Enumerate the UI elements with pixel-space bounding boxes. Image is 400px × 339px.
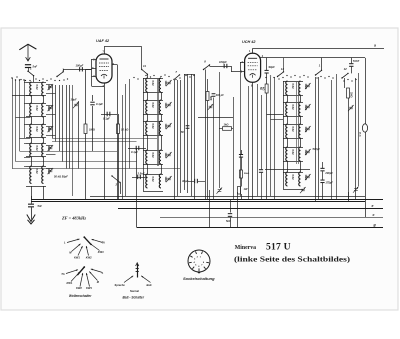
resistor 10k xyxy=(118,114,120,124)
svg-text:e: e xyxy=(372,204,374,208)
wire sw8 drop xyxy=(205,70,207,200)
trimmer right lower xyxy=(353,187,359,193)
wire bundle B3 xyxy=(180,80,182,193)
svg-text:0.02: 0.02 xyxy=(291,105,295,111)
svg-text:0.02: 0.02 xyxy=(35,106,39,112)
resistor 50k xyxy=(265,84,268,93)
wire row R1 top xyxy=(283,81,303,83)
svg-text:500pF: 500pF xyxy=(313,147,321,151)
wire mid cluster drop xyxy=(207,101,209,200)
wire bundle C1 xyxy=(184,74,186,190)
switch wave contact 1a xyxy=(27,71,34,77)
svg-text:(linke Seite des Schaltbildes): (linke Seite des Schaltbildes) xyxy=(234,255,351,264)
capacitor 0.1uF coupling xyxy=(101,114,117,116)
svg-text:KW2: KW2 xyxy=(76,286,82,290)
wire row R2 bottom xyxy=(283,116,303,118)
coil M5b xyxy=(159,174,161,188)
switch contact dots row mid xyxy=(133,74,194,80)
coil L5b xyxy=(42,166,44,184)
wire row L5 bottom xyxy=(26,186,46,188)
coil R4b xyxy=(299,147,301,161)
wire mid bank left spine xyxy=(143,78,145,191)
switch section 8 xyxy=(203,64,210,70)
wire row R3 bottom xyxy=(283,138,303,140)
wire left bus 3 xyxy=(19,80,21,151)
svg-text:TAST: TAST xyxy=(353,60,360,63)
wire drop 240 xyxy=(240,72,242,196)
wire antenna coupling rail xyxy=(63,69,92,71)
coil R2b xyxy=(299,102,301,116)
wire trimline xyxy=(78,101,80,169)
switch section 12b xyxy=(341,73,348,79)
switch section 7 xyxy=(173,74,180,80)
wire bank row connectors xyxy=(31,95,33,103)
capacitor 90pF xyxy=(266,58,268,70)
lamp right border xyxy=(362,124,367,132)
svg-text:0.1µF: 0.1µF xyxy=(96,102,103,106)
resistor 1M xyxy=(85,69,87,124)
wire bank-left stubs2 xyxy=(12,95,30,97)
coil L1b xyxy=(42,82,44,96)
svg-text:517 U: 517 U xyxy=(266,242,291,253)
svg-text:0.02: 0.02 xyxy=(151,81,155,87)
wire bundle E3 xyxy=(331,80,333,199)
wire bundle C4 xyxy=(194,74,196,199)
switch diagram 1 pivot xyxy=(83,236,85,238)
coil L3b xyxy=(42,124,44,138)
coil M1a xyxy=(146,78,148,92)
coil M4b xyxy=(159,150,161,164)
wire UAF42 left rail xyxy=(86,69,92,71)
svg-text:Wellenschalter: Wellenschalter xyxy=(69,294,92,298)
switch section 11 xyxy=(141,69,148,75)
trimmer mid xyxy=(208,104,214,110)
svg-text:KW3: KW3 xyxy=(98,250,104,254)
node dots left xyxy=(11,77,24,80)
coil M2a xyxy=(146,100,148,114)
wire cross h2 xyxy=(52,141,137,143)
wire link UCH to rc row2 xyxy=(267,114,283,116)
trimmer capacitor row L1 xyxy=(48,84,54,90)
coil L4b xyxy=(42,143,44,157)
fan1 arrow L xyxy=(67,239,80,243)
svg-text:Baß - Schalter: Baß - Schalter xyxy=(123,296,145,300)
fan2 arrow TA xyxy=(66,270,78,274)
wire contact 1b riser xyxy=(63,69,65,72)
wire bus B2 xyxy=(31,201,365,203)
svg-text:ZF = 483kHz: ZF = 483kHz xyxy=(61,216,86,221)
wire row M1 top xyxy=(143,78,163,80)
wire bus B3 xyxy=(118,208,383,210)
fan2 arrow L xyxy=(91,269,103,273)
wire row M4 top xyxy=(143,150,163,152)
svg-text:0.02: 0.02 xyxy=(291,127,295,133)
capacitor 5nF ground xyxy=(31,196,33,204)
wire sw1r riser xyxy=(321,58,323,71)
wire rc bank spine xyxy=(283,81,285,189)
wire UCH42 pin4 stub xyxy=(240,62,245,64)
svg-text:1MΩ: 1MΩ xyxy=(164,177,168,183)
wire UAF42 top link xyxy=(104,47,106,54)
capacitor 5nF antenna xyxy=(25,64,31,68)
capacitor 175pF right xyxy=(320,180,324,184)
wire row M5 top xyxy=(143,174,163,176)
svg-text:90pF: 90pF xyxy=(269,65,276,69)
coil L2b xyxy=(42,103,44,117)
wire bank-left stubs xyxy=(24,82,26,84)
transformer core rc xyxy=(296,81,298,164)
wire left bus 2 xyxy=(15,80,17,162)
switch section 1r xyxy=(315,70,322,76)
wire bundle C2 xyxy=(187,74,189,193)
wire bundle C3 xyxy=(191,74,193,196)
wire sw12a riser xyxy=(283,58,285,72)
wire row L4 bottom xyxy=(26,156,46,158)
svg-text:0.1µF: 0.1µF xyxy=(131,150,138,154)
switch section 12a xyxy=(277,71,284,77)
svg-text:2.5nF: 2.5nF xyxy=(137,172,145,176)
trimmer low right xyxy=(300,187,306,193)
wire feed 122 xyxy=(122,95,124,199)
switch diagram 2 pivot xyxy=(83,266,85,268)
svg-text:KW1: KW1 xyxy=(74,255,80,259)
svg-text:kΩ: kΩ xyxy=(262,87,265,90)
coil M2b xyxy=(159,100,161,114)
svg-text:c: c xyxy=(373,213,375,217)
wire drop 257 xyxy=(257,84,259,196)
svg-text:1W: 1W xyxy=(244,187,248,191)
coil M5a xyxy=(146,174,148,188)
wire bundle E2 xyxy=(318,77,320,199)
capacitor 30pF xyxy=(194,179,198,183)
wire row L5 top xyxy=(26,166,46,168)
coil R5b xyxy=(299,172,301,186)
trimmer row M4 xyxy=(166,152,172,158)
svg-text:100pF: 100pF xyxy=(76,64,84,68)
tube UAF42 xyxy=(96,54,112,83)
svg-text:TA: TA xyxy=(102,241,105,245)
wire bundle D1 xyxy=(270,77,272,196)
coil R5a xyxy=(286,172,288,186)
wire row R1 bottom xyxy=(283,95,303,97)
wire drop 233 xyxy=(233,97,235,199)
svg-text:30pF: 30pF xyxy=(182,179,189,183)
wire row R4 top xyxy=(283,147,303,149)
svg-text:100pF: 100pF xyxy=(219,60,227,64)
capacitor 50pF midfield xyxy=(186,125,190,129)
wire drop d3 xyxy=(348,192,350,202)
switch tone 2 xyxy=(111,175,120,183)
coil L2a xyxy=(30,103,32,117)
wire bundle B2 xyxy=(177,80,179,196)
wire sw12b drop xyxy=(344,78,346,88)
svg-text:50 kΩ 50pF: 50 kΩ 50pF xyxy=(54,175,68,179)
fan2 arrow KW1 xyxy=(71,272,80,282)
wire right bundle F1 xyxy=(355,78,357,199)
svg-text:12: 12 xyxy=(344,67,348,71)
ground xyxy=(31,208,33,220)
coil R1b xyxy=(299,81,301,95)
coil M1b xyxy=(159,78,161,92)
capacitor 0.5uF drop 261 xyxy=(261,95,263,169)
wire drop d1 xyxy=(209,190,211,227)
resistor 1W xyxy=(238,187,241,195)
fan1 arrow KW1 xyxy=(78,246,83,256)
coil L4a xyxy=(30,143,32,157)
wire UAF42 pin6 out xyxy=(112,64,117,66)
wire row M5 bottom xyxy=(143,191,163,193)
svg-text:a: a xyxy=(374,44,376,48)
wire bundle A3 xyxy=(59,85,61,151)
wire left bus 1 xyxy=(12,78,14,169)
wire feed 129 xyxy=(129,79,131,169)
wire link 117h xyxy=(198,117,233,119)
capacitor 100pF UCH xyxy=(224,64,228,68)
svg-text:1MΩ: 1MΩ xyxy=(164,153,168,159)
wire switch drop xyxy=(33,76,35,82)
trimmer row M1 xyxy=(166,80,172,86)
wire row M4 bottom xyxy=(143,164,163,166)
wire bank bottom drops xyxy=(31,186,33,199)
trimmer capacitor row L4 xyxy=(48,145,54,151)
wire row M3 bottom xyxy=(143,135,163,137)
wire bundle A6 xyxy=(69,85,71,169)
svg-text:(0.1): (0.1) xyxy=(359,132,361,137)
coil M3a xyxy=(146,121,148,135)
wire row M3 top xyxy=(143,121,163,123)
wire 100pF to pin3 xyxy=(231,66,233,72)
svg-text:Sprache: Sprache xyxy=(115,283,126,287)
wire right border xyxy=(365,58,367,217)
capacitor 5nF bottom xyxy=(230,199,232,213)
wire cross h5 xyxy=(12,168,180,170)
wire row R5 bottom xyxy=(283,189,303,191)
wire bundle E4 xyxy=(336,74,338,199)
tube UCH42 xyxy=(245,53,261,82)
wire row M1 bottom xyxy=(143,92,163,94)
svg-text:UAF 42: UAF 42 xyxy=(96,39,110,43)
svg-text:1MΩ: 1MΩ xyxy=(164,103,168,109)
wire row L1 bottom xyxy=(26,95,46,97)
capacitor 100pF antenna xyxy=(79,67,83,71)
switch contact dots row right xyxy=(265,75,356,82)
trimmer capacitor row L3 xyxy=(48,126,54,132)
wire bundle A2 xyxy=(55,85,57,142)
wire UCH42 pin2 rail xyxy=(261,57,366,59)
wire bundle C top xyxy=(184,74,195,76)
trimmer row R2 xyxy=(305,104,311,110)
trimmer row M2 xyxy=(166,102,172,108)
coil M4a xyxy=(146,150,148,164)
svg-text:30pF: 30pF xyxy=(71,98,77,102)
svg-text:1MΩ: 1MΩ xyxy=(349,92,352,97)
svg-text:KW1: KW1 xyxy=(67,281,73,285)
resistor 50k chain xyxy=(240,170,243,178)
switch wave contact 1b xyxy=(56,71,63,77)
fan1 arrow KW3 xyxy=(90,244,100,251)
trimmer capacitor 30pF mid-left xyxy=(73,102,79,108)
wire rc link xyxy=(265,169,310,171)
svg-text:200pF: 200pF xyxy=(324,171,333,175)
coil L1a xyxy=(30,82,32,96)
capacitor 0.1uF grid xyxy=(92,95,94,101)
wire row L2 bottom xyxy=(26,116,46,118)
wire mid row connectors xyxy=(147,92,149,100)
svg-text:175µF: 175µF xyxy=(325,181,333,185)
wire bundle D2 xyxy=(274,77,276,199)
resistor 500 xyxy=(207,79,209,92)
fan2 arrow KW2 xyxy=(80,273,83,287)
wire bus B4 faint xyxy=(160,217,383,219)
svg-text:5nF: 5nF xyxy=(38,205,43,208)
wire bundle E1 xyxy=(315,77,317,202)
svg-text:0.02: 0.02 xyxy=(291,150,295,156)
wire bundle B1 xyxy=(174,80,176,199)
svg-text:0.02: 0.02 xyxy=(151,124,155,130)
wire row R3 top xyxy=(283,124,303,126)
wire row L3 top xyxy=(26,124,46,126)
trimmer row M3 xyxy=(166,123,172,129)
fan1 arrow TA xyxy=(92,239,103,242)
coil L3a xyxy=(30,124,32,138)
capacitor 0.1uF lower xyxy=(128,148,146,150)
wire row R4 bottom xyxy=(283,161,303,163)
capacitor 2.5nF xyxy=(132,177,146,179)
svg-text:0.02: 0.02 xyxy=(151,177,155,183)
bass arrow Sprache xyxy=(124,276,133,283)
svg-text:2: 2 xyxy=(115,183,118,187)
tube socket diagram xyxy=(188,250,210,272)
coil R1a xyxy=(286,81,288,95)
wire bundle A1 xyxy=(52,85,54,138)
svg-text:5nF: 5nF xyxy=(226,219,231,223)
trimmer capacitor row L2 xyxy=(48,105,54,111)
coil R3a xyxy=(286,124,288,138)
wire row R5 top xyxy=(283,172,303,174)
wire UAF42 cathode drop xyxy=(104,83,106,199)
trimmer row R4 xyxy=(305,149,311,155)
wire UCH42 cathode drop xyxy=(252,82,254,199)
svg-text:11: 11 xyxy=(143,64,146,68)
trimmer row R3 xyxy=(305,126,311,132)
wire UCH42 top to a xyxy=(252,48,254,53)
wire UAF42 anode drop xyxy=(117,65,119,200)
capacitor 200pF right xyxy=(322,162,324,168)
coil R4a xyxy=(286,147,288,161)
wire drop 248 xyxy=(248,86,250,199)
wire cross h1 xyxy=(52,138,157,140)
wire row M2 bottom xyxy=(143,114,163,116)
capacitor 10nF chain xyxy=(241,150,243,154)
coil R2a xyxy=(286,102,288,116)
wire row R2 top xyxy=(283,102,303,104)
wire cross h4 xyxy=(16,161,137,163)
wire cross h3 xyxy=(20,151,118,153)
svg-text:KW3: KW3 xyxy=(86,286,92,290)
svg-text:TA: TA xyxy=(61,272,64,276)
wire chain bottom xyxy=(241,194,243,199)
wire UAF42 left box xyxy=(91,59,93,86)
fan1 arrow KW2 xyxy=(86,246,89,256)
svg-text:1MΩ: 1MΩ xyxy=(164,124,168,130)
trimmer capacitor row L5 xyxy=(48,168,54,174)
wire bundle A long xyxy=(72,85,74,196)
wire row L4 top xyxy=(26,143,46,145)
svg-text:0.02: 0.02 xyxy=(35,169,39,175)
capacitor TAST xyxy=(351,58,353,63)
transformer core mid xyxy=(157,78,159,166)
wire bundle A4 xyxy=(62,85,64,162)
fan1 arrow M xyxy=(72,244,81,252)
wire sw11 drop xyxy=(147,74,149,78)
coil R3b xyxy=(299,124,301,138)
wire drop to bus4 xyxy=(136,148,138,227)
svg-text:Normal: Normal xyxy=(130,289,139,293)
resistor right 1M xyxy=(347,88,350,98)
svg-text:0.02: 0.02 xyxy=(291,84,295,90)
svg-text:Minerva: Minerva xyxy=(235,245,256,251)
wire antenna to switch xyxy=(28,68,30,72)
bass switch lever xyxy=(137,264,139,278)
wire drop 219 xyxy=(219,72,221,188)
svg-text:Sockelschaltung: Sockelschaltung xyxy=(183,277,215,281)
svg-text:UCH 42: UCH 42 xyxy=(242,40,256,44)
trimmer row R1 xyxy=(305,83,311,89)
wire row M2 top xyxy=(143,100,163,102)
svg-text:5nF: 5nF xyxy=(33,64,38,68)
fan2 arrow M xyxy=(89,272,97,281)
svg-text:0.02: 0.02 xyxy=(35,85,39,91)
svg-text:0.02: 0.02 xyxy=(151,153,155,159)
svg-text:12: 12 xyxy=(281,67,285,71)
svg-text:0.02: 0.02 xyxy=(35,146,39,152)
svg-text:0.02: 0.02 xyxy=(151,103,155,109)
svg-text:1kΩ: 1kΩ xyxy=(224,123,229,127)
wire rc row connectors xyxy=(287,95,289,102)
wire bus B1 xyxy=(31,199,383,201)
wire row L1 top xyxy=(26,82,46,84)
coil L5a xyxy=(30,166,32,184)
capacitor 200pF xyxy=(212,93,216,97)
svg-text:0.02: 0.02 xyxy=(35,127,39,133)
wire right bundle F2 xyxy=(358,73,360,186)
antenna xyxy=(19,44,36,61)
wire row L3 bottom xyxy=(26,137,46,139)
trimmer row M5 xyxy=(166,176,172,182)
svg-text:1MΩ: 1MΩ xyxy=(89,128,96,132)
wire bus B5 xyxy=(137,227,384,229)
wire bus B0 xyxy=(90,196,365,198)
bass arrow Bass xyxy=(141,276,150,283)
svg-text:0.1µF: 0.1µF xyxy=(103,117,110,121)
wire left bus 4 xyxy=(24,80,26,138)
wire bundle A5 xyxy=(66,85,68,169)
wire feed 125 xyxy=(125,84,127,196)
trimmer right upper xyxy=(348,105,354,111)
trimmer low mid xyxy=(217,188,223,194)
svg-text:0.02: 0.02 xyxy=(291,175,295,181)
trimmer row R5 xyxy=(305,174,311,180)
wire row L2 top xyxy=(26,103,46,105)
wire rail sw8 xyxy=(209,65,211,66)
resistor 1k horizontal xyxy=(219,128,223,130)
fan2 arrow KW3 xyxy=(86,273,90,287)
switch contact dots row left xyxy=(16,76,68,81)
wire rowstubs right of bank xyxy=(46,84,52,86)
svg-text:Baß: Baß xyxy=(147,283,152,287)
coil M3b xyxy=(159,121,161,135)
svg-text:50kΩ: 50kΩ xyxy=(244,173,249,175)
